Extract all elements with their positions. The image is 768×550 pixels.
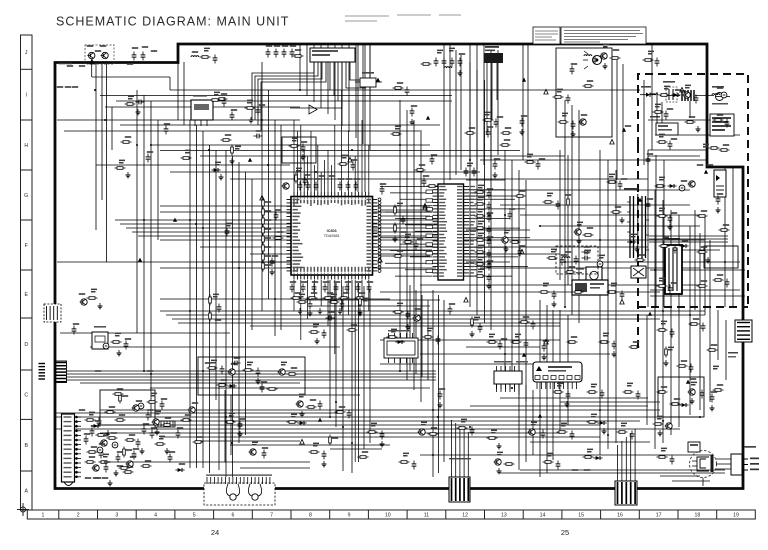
- transistor: [152, 419, 160, 425]
- wire: [160, 239, 705, 241]
- wire: [160, 211, 430, 213]
- value label: [497, 116, 503, 118]
- value label: [95, 477, 101, 479]
- value label: [661, 448, 667, 452]
- fan-out wires from CN1601: [252, 67, 372, 131]
- wire: [532, 390, 534, 455]
- transistor: [688, 181, 696, 187]
- resistor: [181, 419, 192, 422]
- ground: [318, 308, 323, 314]
- svg-text:C: C: [24, 393, 28, 399]
- value label: [609, 174, 615, 178]
- resistor: [519, 321, 530, 324]
- value label: [57, 86, 63, 88]
- resistor: [583, 456, 594, 459]
- ground: [487, 211, 492, 217]
- ground: [219, 174, 224, 180]
- capacitor: [262, 450, 267, 459]
- value label: [345, 281, 351, 283]
- ground: [706, 257, 711, 263]
- value label: [65, 86, 71, 88]
- wire: [476, 44, 478, 170]
- value label: [313, 324, 319, 328]
- svg-text:E: E: [24, 292, 28, 298]
- svg-text:B: B: [24, 443, 28, 449]
- resistor: [501, 132, 512, 135]
- resistor: [329, 301, 340, 304]
- value label: [693, 318, 699, 320]
- value label: [91, 446, 97, 448]
- capacitor: [593, 56, 598, 65]
- capacitor: [160, 401, 165, 410]
- value label: [164, 123, 170, 125]
- wire: [469, 44, 471, 160]
- value label: [299, 394, 305, 398]
- svg-text:15: 15: [578, 513, 584, 519]
- transistor: [579, 119, 587, 125]
- ground: [322, 461, 327, 467]
- ground: [487, 235, 492, 241]
- value label: [380, 183, 386, 185]
- wire: [80, 382, 300, 384]
- value label: [359, 292, 365, 294]
- value label: [277, 231, 283, 233]
- value label: [478, 221, 484, 225]
- capacitor: [232, 361, 241, 366]
- wire: [380, 291, 660, 293]
- relay box at dashed edge: [631, 266, 646, 278]
- capacitor: [487, 190, 492, 199]
- wire: [327, 44, 329, 114]
- ground: [716, 207, 721, 213]
- ground: [249, 117, 254, 123]
- resistor: [697, 285, 708, 288]
- value label: [304, 174, 310, 176]
- value label: [671, 138, 677, 140]
- value label: [234, 357, 240, 359]
- K701 delay-line box: [572, 280, 608, 295]
- resistor: [567, 197, 570, 208]
- value label: [73, 323, 79, 325]
- ground: [497, 468, 502, 474]
- wire: [380, 215, 430, 217]
- resistor: [262, 225, 265, 236]
- svg-text:6: 6: [232, 513, 235, 519]
- resistor: [355, 297, 366, 300]
- ground: [126, 172, 131, 178]
- wire: [172, 318, 660, 320]
- wire: [648, 149, 706, 151]
- ground: [504, 246, 509, 252]
- value label: [478, 269, 484, 273]
- transistor: [278, 369, 286, 375]
- resistor: [483, 119, 494, 122]
- capacitor: [472, 168, 477, 177]
- wire: [500, 472, 725, 474]
- resistor: [125, 439, 136, 442]
- wire: [299, 44, 301, 90]
- value label: [99, 443, 105, 445]
- resistor: [338, 163, 349, 166]
- resistor: [510, 241, 521, 244]
- resistor: [141, 465, 152, 468]
- inductor: [584, 55, 592, 56]
- capacitor: [487, 202, 492, 211]
- wire: [91, 59, 93, 77]
- value label: [584, 246, 590, 248]
- header comb small: [155, 421, 175, 427]
- value label: [104, 461, 110, 463]
- value label: [343, 298, 349, 300]
- regulator cluster top-middle: [355, 72, 382, 87]
- ground: [106, 430, 111, 436]
- wire: [643, 80, 645, 165]
- dashed box around Q601 pair: [85, 45, 114, 64]
- capacitor: [582, 256, 591, 261]
- transistor: [574, 229, 582, 235]
- value label: [587, 80, 593, 82]
- IC801 main processor QFP: [287, 192, 378, 280]
- value label: [667, 108, 673, 110]
- value label: [111, 432, 117, 434]
- transistor: [418, 429, 426, 435]
- capacitor: [664, 111, 669, 120]
- svg-text:7: 7: [270, 513, 273, 519]
- svg-text:5: 5: [193, 513, 196, 519]
- value label: [659, 278, 665, 282]
- ground: [565, 401, 570, 407]
- value label: [142, 46, 148, 48]
- resistor: [394, 205, 397, 216]
- value label: [117, 465, 123, 467]
- wire: [362, 44, 364, 144]
- capacitor: [164, 126, 169, 135]
- wire: [607, 160, 609, 449]
- value label: [397, 250, 403, 252]
- value label: [397, 82, 403, 84]
- wire: [230, 395, 232, 455]
- resistor: [125, 103, 136, 106]
- svg-text:19: 19: [733, 513, 739, 519]
- resistor: [475, 239, 486, 242]
- wire: [420, 130, 422, 402]
- value label: [485, 112, 491, 116]
- capacitor: [646, 156, 651, 165]
- wire: [160, 436, 600, 438]
- wire: [560, 401, 660, 403]
- value label: [487, 236, 493, 238]
- value label: [100, 45, 106, 47]
- wire: [230, 261, 290, 263]
- wire: [369, 44, 371, 150]
- svg-text:I: I: [25, 93, 26, 99]
- value label: [291, 367, 297, 369]
- wire: [670, 210, 672, 435]
- capacitor: [541, 430, 546, 439]
- capacitor: [487, 250, 492, 259]
- value label: [681, 180, 687, 182]
- value label: [613, 49, 619, 51]
- svg-text:14: 14: [540, 513, 546, 519]
- wire: [57, 119, 300, 121]
- ground: [315, 338, 320, 344]
- value label: [449, 303, 455, 305]
- resistor: [421, 63, 432, 66]
- ground: [380, 441, 385, 447]
- CRT socket / deflection bottom-right: [660, 442, 759, 486]
- resistor: [607, 181, 618, 184]
- value label: [711, 391, 717, 393]
- value label: [122, 395, 128, 397]
- resistor: [245, 107, 256, 110]
- wire: [143, 95, 145, 371]
- ground: [136, 109, 141, 115]
- capacitor: [570, 431, 575, 440]
- capacitor: [354, 182, 359, 191]
- wire: [230, 178, 648, 180]
- value label: [334, 281, 340, 283]
- capacitor: [282, 49, 287, 58]
- resistor: [607, 291, 618, 294]
- value label: [478, 185, 484, 189]
- resistor: [719, 149, 730, 152]
- wire: [313, 44, 315, 102]
- capacitor: [266, 49, 271, 58]
- ground: [458, 70, 463, 76]
- photocoupler box PC801: [714, 170, 726, 197]
- ground: [108, 480, 113, 486]
- ground: [520, 129, 525, 135]
- transformer T501 on dashed edge: [624, 188, 649, 260]
- resistor: [657, 391, 668, 394]
- resistor: [635, 259, 646, 262]
- wire: [476, 70, 478, 315]
- wire: [657, 92, 690, 123]
- transistor: [501, 237, 509, 243]
- wire: [520, 214, 700, 216]
- power entry diode D801: [640, 86, 656, 97]
- capacitor: [176, 430, 181, 439]
- IC201 sound amp: [494, 361, 528, 389]
- value label: [354, 178, 360, 180]
- ground: [668, 224, 673, 230]
- wire: [662, 200, 664, 443]
- value label: [494, 158, 500, 160]
- value label: [523, 316, 529, 318]
- resistor: [475, 215, 486, 218]
- resistor: [547, 257, 558, 260]
- wire: [64, 130, 420, 132]
- resistor: [475, 275, 486, 278]
- capacitor: [700, 390, 705, 399]
- line filter T802 dashed box: [663, 81, 677, 102]
- resistor: [465, 132, 476, 135]
- value label: [478, 233, 484, 237]
- capacitor: [367, 284, 372, 293]
- wire: [268, 90, 270, 299]
- wire: [166, 314, 705, 316]
- transistor: [282, 183, 290, 189]
- capacitor: [301, 284, 306, 293]
- net arrow: [376, 78, 380, 82]
- value label: [281, 362, 287, 366]
- svg-text:2: 2: [77, 513, 80, 519]
- capacitor: [97, 418, 102, 427]
- svg-text:10: 10: [385, 513, 391, 519]
- note box top-right: [710, 114, 734, 136]
- resistor: [329, 435, 332, 446]
- wire: [106, 64, 108, 262]
- value label: [231, 363, 237, 365]
- regulator box IC802: [650, 116, 678, 135]
- resistor: [113, 393, 124, 396]
- capacitor: [405, 87, 410, 96]
- value label: [319, 175, 325, 177]
- resistor: [475, 203, 486, 206]
- capacitor: [478, 324, 483, 333]
- value label: [72, 86, 78, 88]
- ground: [358, 308, 363, 314]
- value label: [427, 328, 433, 332]
- transistor: [100, 440, 108, 446]
- value label: [252, 442, 258, 446]
- value label: [301, 141, 307, 143]
- svg-text:13: 13: [501, 513, 507, 519]
- ground: [256, 378, 261, 384]
- value label: [192, 402, 198, 404]
- wire: [56, 416, 700, 418]
- wire: [202, 131, 204, 468]
- crystal oscillator X401: [92, 326, 108, 349]
- value label: [717, 193, 723, 195]
- wire: [525, 180, 527, 402]
- diode: [597, 421, 606, 425]
- resistor: [558, 121, 569, 124]
- value label: [691, 382, 697, 386]
- value label: [659, 177, 665, 181]
- value label: [459, 53, 465, 55]
- transistor: [600, 53, 608, 59]
- ground: [542, 354, 547, 360]
- resistor: [393, 255, 404, 258]
- resistor: [487, 437, 498, 440]
- capacitor: [556, 201, 561, 210]
- transistor: [228, 369, 236, 375]
- value label: [659, 208, 665, 212]
- value label: [265, 246, 271, 248]
- wire: [552, 310, 554, 460]
- value label: [136, 400, 142, 402]
- capacitor: [600, 390, 605, 399]
- resistor: [123, 447, 126, 458]
- wire: [470, 405, 648, 407]
- wire: [224, 390, 226, 462]
- net arrow: [544, 339, 548, 344]
- inductor: [191, 56, 199, 57]
- value label: [701, 210, 707, 212]
- wire: [689, 226, 691, 415]
- resistor: [123, 471, 134, 474]
- resistor: [719, 229, 730, 232]
- value label: [647, 153, 653, 155]
- capacitor: [72, 326, 77, 335]
- electrolytic capacitor: [679, 185, 685, 191]
- capacitor: [552, 291, 557, 300]
- value label: [587, 449, 593, 453]
- value label: [93, 477, 99, 479]
- value label: [143, 423, 149, 425]
- resistor: [393, 311, 404, 314]
- diode: [679, 244, 688, 248]
- ground: [710, 405, 715, 411]
- value label: [569, 266, 575, 268]
- value label: [431, 427, 437, 429]
- resistor: [657, 141, 668, 144]
- value label: [205, 362, 211, 364]
- wire: [480, 267, 700, 269]
- resistor: [262, 243, 265, 254]
- wire: [694, 210, 696, 310]
- resistor: [335, 411, 346, 414]
- diode: [671, 93, 680, 97]
- ground: [308, 310, 313, 316]
- resistor: [415, 169, 426, 172]
- value label: [689, 116, 695, 118]
- ground: [635, 246, 640, 252]
- capacitor: [345, 284, 350, 293]
- value label: [661, 386, 667, 388]
- capacitor: [574, 256, 579, 265]
- value label: [161, 398, 167, 400]
- capacitor: [136, 439, 141, 448]
- resistor: [289, 145, 300, 148]
- capacitor: [298, 182, 303, 191]
- svg-text:SCHEMATIC DIAGRAM: MAIN UNI: SCHEMATIC DIAGRAM: MAIN UNIT: [56, 15, 289, 29]
- capacitor: [132, 52, 137, 61]
- resistor: [665, 347, 668, 358]
- value label: [306, 178, 312, 180]
- value label: [311, 292, 317, 294]
- wire: [520, 469, 725, 471]
- resistor: [217, 98, 228, 101]
- value label: [603, 333, 609, 337]
- capacitor: [430, 156, 435, 165]
- value label: [661, 321, 667, 325]
- wire: [438, 295, 440, 473]
- notes box 2: [561, 27, 646, 44]
- wire: [709, 240, 711, 402]
- wire: [329, 280, 331, 417]
- capacitor: [556, 461, 561, 470]
- wire: [648, 155, 700, 157]
- svg-text:J: J: [25, 50, 28, 56]
- ground: [98, 303, 103, 309]
- capacitor: [536, 161, 541, 170]
- wire: [578, 110, 580, 323]
- diode: [395, 340, 404, 344]
- ground: [487, 259, 492, 265]
- net arrow: [544, 89, 548, 94]
- wire: [380, 209, 430, 211]
- value label: [467, 163, 473, 167]
- value label: [84, 433, 90, 435]
- value label: [265, 264, 271, 266]
- capacitor: [104, 464, 109, 473]
- wire: [380, 363, 560, 365]
- resistor: [119, 467, 130, 470]
- capacitor: [486, 129, 491, 138]
- wire: [399, 100, 401, 372]
